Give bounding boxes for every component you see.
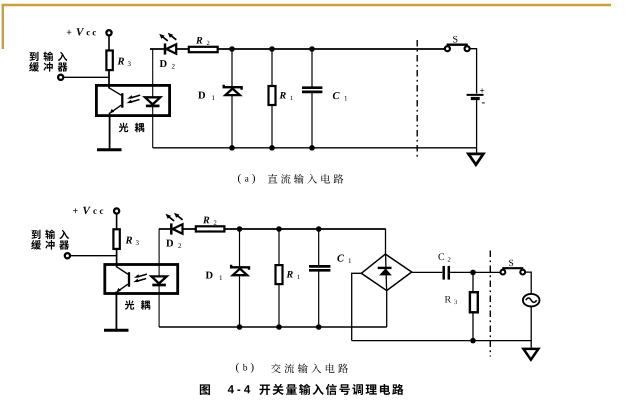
resistor R3 (b) — [113, 229, 119, 249]
dash-dot boundary (b) — [489, 251, 491, 357]
node dot C2/R3 junction (b) — [470, 270, 476, 276]
LED in optocoupler (b) — [151, 276, 166, 283]
terminal +Vcc (b) — [114, 208, 119, 213]
input terminal (a) — [58, 75, 63, 80]
bottom rail (b) — [159, 326, 387, 328]
top rail (b) — [159, 228, 386, 230]
wire C2 to switch (b) — [450, 271, 500, 273]
label R1 (a) — [279, 92, 285, 99]
optocoupler box U1 (a) — [96, 85, 169, 115]
wire R1 (b) — [278, 229, 280, 327]
label D1 (a) — [198, 92, 205, 99]
terminal +Vcc (a) — [106, 30, 111, 35]
label R2 (a) — [196, 37, 202, 44]
caption (b) parens — [236, 363, 239, 373]
wire top rail to bridge (b) — [385, 229, 387, 255]
label C2 (b) — [438, 253, 444, 260]
bridge rectifier (b) — [361, 254, 411, 291]
label C1 (a) — [333, 92, 340, 99]
wire C1 (a) — [311, 49, 313, 87]
light arrows in optocoupler (a) — [129, 95, 140, 102]
node dot lower rail (b) — [470, 338, 476, 344]
capacitor C1 (b) — [309, 266, 330, 270]
resistor R3 lower (b) — [470, 292, 478, 312]
wire input terminal to R3 net (b) — [70, 255, 117, 257]
zener diode D1 (a) — [224, 85, 242, 90]
ground triangle (b) — [523, 349, 538, 360]
node dots bottom rail (b) — [237, 324, 322, 330]
wire Vcc to R3 (b) — [116, 214, 118, 229]
label S (b) — [509, 260, 513, 266]
optocoupler box U2 (b) — [105, 265, 178, 294]
wire R3 to optocoupler (b) — [116, 249, 118, 268]
figure caption 4-4 — [228, 385, 234, 393]
label R3 lower (b) — [445, 296, 451, 303]
label input row1 (a) — [30, 52, 68, 62]
figure caption text — [259, 384, 403, 395]
label input row2 (a) — [29, 62, 67, 72]
transistor in optocoupler (a) — [109, 88, 122, 149]
label D1 (b) — [206, 272, 213, 279]
label input row1 (b) — [32, 230, 69, 240]
ground triangle (a) — [468, 154, 483, 165]
caption (a) parens — [238, 174, 241, 184]
caption (b) text — [271, 363, 348, 373]
label optocoupler (b) — [125, 300, 151, 310]
caption (a) text — [268, 174, 344, 184]
bottom rail (a) — [153, 147, 477, 149]
wire Vcc to R3 (a) — [108, 36, 110, 51]
label R2 (b) — [203, 217, 209, 224]
transistor in optocoupler (b) — [116, 267, 129, 330]
resistor R1 (a) — [269, 86, 276, 105]
battery B1 (a) — [467, 94, 484, 96]
wire switch to AC source (b) — [525, 272, 531, 294]
label +Vcc (a) — [67, 30, 72, 35]
ground bar (b) — [104, 329, 129, 332]
wire C1 (b) — [318, 229, 320, 266]
lower rail (b) — [352, 340, 532, 342]
gold page border left — [2, 4, 4, 49]
label input row2 (b) — [31, 240, 69, 250]
gold page border top — [2, 4, 612, 7]
wire D1 (b) — [239, 229, 241, 327]
label R3 (a) — [117, 58, 124, 65]
label optocoupler (a) — [119, 123, 145, 133]
zener diode D1 (b) — [231, 265, 249, 270]
label C1 (b) — [337, 255, 344, 262]
resistor R3 (a) — [106, 51, 112, 71]
wire input terminal to R3 net (a) — [64, 76, 110, 78]
resistor R1 (b) — [276, 265, 283, 284]
wire R3 to optocoupler (a) — [108, 70, 110, 89]
top rail (a) — [150, 48, 445, 50]
light arrows in optocoupler (b) — [136, 274, 147, 281]
wire R1 (a) — [271, 49, 273, 148]
AC source G1 (b) — [523, 294, 540, 307]
dash-dot boundary (a) — [416, 40, 418, 158]
label +Vcc (b) — [73, 208, 78, 213]
input terminal (b) — [65, 253, 70, 258]
label R1 (b) — [286, 271, 292, 278]
label R3 (b) — [125, 237, 132, 244]
LED D2 (a) — [165, 43, 176, 54]
ground bar (a) — [97, 148, 122, 151]
label D2 (b) — [166, 240, 173, 247]
wire bridge to bottom rail (b) — [386, 290, 388, 327]
switch S (b) — [502, 267, 523, 269]
node dots top rail (b) — [237, 226, 322, 232]
resistor R2 (b) — [196, 226, 225, 231]
label D2 (a) — [160, 60, 167, 67]
wire battery to ground (a) — [476, 100, 478, 154]
wire R3 to lower rail (b) — [472, 312, 474, 340]
emission arrows D2 (b) — [168, 215, 183, 221]
label S (a) — [453, 36, 457, 43]
wire AC source to ground (b) — [530, 306, 532, 349]
wire bridge right to C2 (b) — [412, 271, 443, 273]
LED wire through box (a) — [152, 49, 154, 148]
capacitor C1 (a) — [302, 88, 322, 92]
wire D1 (a) — [231, 49, 233, 148]
node dots top rail (a) — [229, 46, 315, 52]
node dots bottom rail (a) — [229, 145, 315, 151]
LED D2 (b) — [171, 223, 182, 234]
switch S (a) — [447, 44, 468, 46]
capacitor C2 (b) — [444, 266, 449, 280]
wire junction to R3 lower (b) — [472, 272, 474, 292]
figure caption 图 — [200, 384, 210, 395]
wire switch to battery (a) — [470, 49, 477, 94]
LED wire through box (b) — [158, 229, 160, 327]
emission arrows D2 (a) — [162, 35, 177, 41]
LED in optocoupler (a) — [145, 97, 160, 104]
resistor R2 (a) — [189, 47, 218, 52]
wire bridge left to lower rail (b) — [352, 273, 362, 340]
